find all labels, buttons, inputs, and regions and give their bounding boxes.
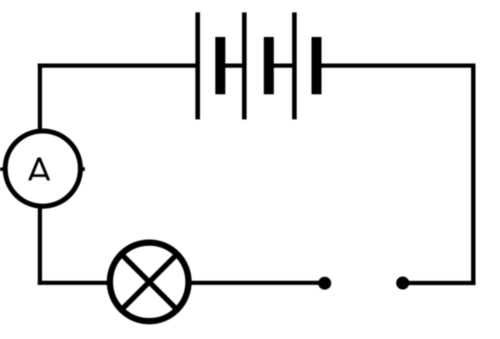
wire top-left (corner to battery): [38, 63, 196, 67]
battery B1 cell3 negative plate: [312, 37, 322, 94]
wire lamp to switch left dot: [189, 281, 325, 285]
wire left vertical upper (corner to ammeter): [38, 64, 42, 132]
lamp L1 cross stroke 1: [121, 254, 178, 311]
lamp L1 circle: [110, 243, 189, 322]
wire bottom-left (corner to lamp): [38, 281, 110, 285]
lamp L1 cross stroke 2: [121, 254, 178, 311]
battery B1 cell1 negative plate: [215, 37, 225, 94]
ammeter A1 left lead stub: [0, 168, 5, 171]
battery B1 cell2 positive plate: [242, 12, 247, 119]
switch S1 right terminal dot: [396, 277, 409, 290]
ammeter A1 label A: [28, 158, 50, 181]
wire switch right dot to right corner: [403, 281, 476, 285]
battery B1 cell1 connector wire: [224, 63, 243, 67]
switch S1 left terminal dot: [318, 277, 331, 290]
wire top-right (battery to corner): [321, 63, 475, 67]
wire left vertical lower (ammeter to bottom corner): [38, 206, 42, 285]
battery B1 cell2 connector wire: [273, 63, 294, 67]
battery B1 cell2 negative plate: [264, 37, 274, 94]
battery B1 cell1 positive plate: [195, 12, 200, 119]
battery B1 cell3 positive plate: [292, 12, 297, 119]
ammeter A1 right nub: [80, 167, 85, 171]
wire right vertical: [471, 66, 475, 285]
ammeter A1 circle: [5, 131, 80, 206]
